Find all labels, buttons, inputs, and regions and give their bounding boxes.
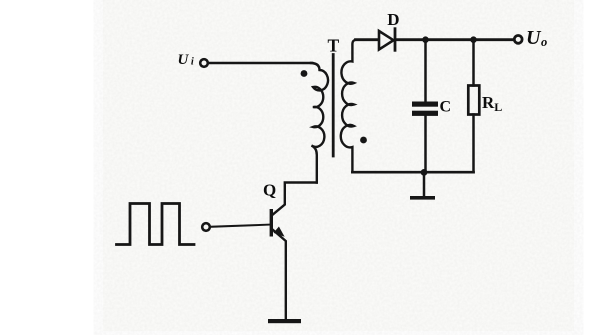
- svg-text:D: D: [387, 10, 399, 29]
- svg-text:Q: Q: [263, 181, 276, 200]
- svg-text:C: C: [440, 98, 452, 115]
- svg-text:T: T: [328, 36, 340, 56]
